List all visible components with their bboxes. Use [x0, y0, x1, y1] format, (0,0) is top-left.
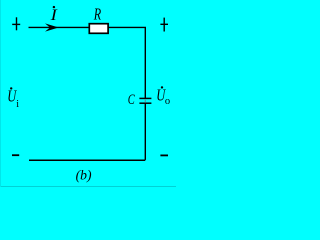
current arrowhead [45, 23, 59, 31]
plus terminal top-right [160, 18, 168, 32]
scan edge shading left [0, 0, 1, 187]
minus terminal bottom-left [12, 154, 19, 156]
capacitor C [139, 98, 151, 103]
svg-text:(b): (b) [76, 168, 92, 183]
label Uo (output voltage U̇o) [156, 86, 170, 107]
scan edge shading bottom [0, 186, 176, 187]
minus terminal bottom-right [160, 154, 168, 156]
svg-text:I: I [49, 7, 57, 24]
svg-text:C: C [128, 92, 136, 108]
wire: capacitor to bottom-right corner [144, 104, 146, 160]
resistor R [89, 24, 108, 34]
svg-text:i: i [16, 99, 19, 110]
wire: input top to resistor R [29, 26, 89, 28]
plus terminal top-left [12, 17, 20, 30]
label I (current İ) [49, 6, 57, 24]
wire stub between capacitor plates [144, 99, 146, 103]
wire: resistor R to top-right corner, then down to capacitor [109, 27, 146, 98]
svg-text:o: o [165, 96, 170, 107]
label Ui (input voltage U̇i) [7, 87, 19, 111]
wire: bottom return [29, 159, 145, 161]
svg-text:R: R [93, 4, 102, 23]
